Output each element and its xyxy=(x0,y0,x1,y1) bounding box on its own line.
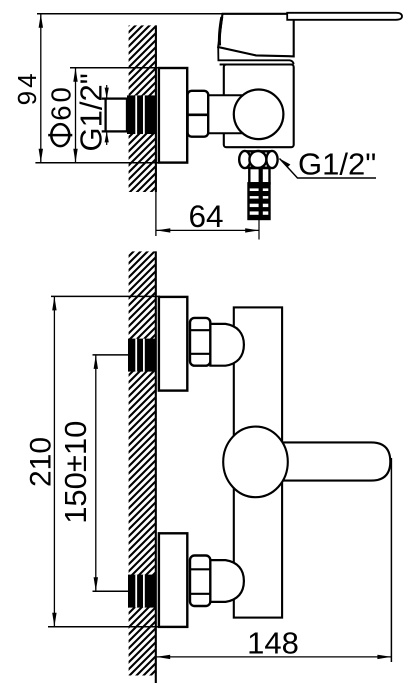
svg-text:210: 210 xyxy=(24,437,57,487)
svg-text:G1/2": G1/2" xyxy=(73,73,108,151)
svg-text:94: 94 xyxy=(12,70,42,105)
svg-text:60: 60 xyxy=(46,84,77,121)
svg-text:150±10: 150±10 xyxy=(58,421,93,524)
svg-text:148: 148 xyxy=(247,626,299,661)
svg-text:64: 64 xyxy=(188,198,223,234)
svg-text:G1/2": G1/2" xyxy=(298,147,376,182)
